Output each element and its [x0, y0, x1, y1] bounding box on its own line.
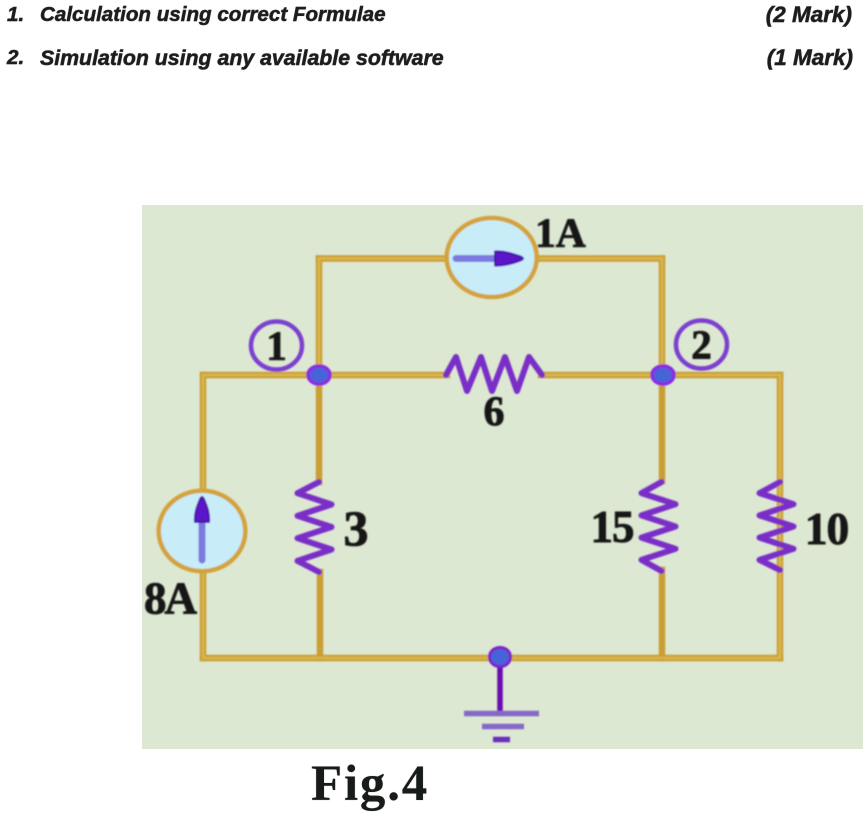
- svg-text:6: 6: [484, 390, 505, 436]
- svg-text:2: 2: [691, 322, 712, 368]
- svg-text:1A: 1A: [535, 210, 586, 256]
- svg-text:3: 3: [344, 500, 369, 556]
- svg-text:1: 1: [266, 323, 287, 369]
- svg-text:15: 15: [591, 502, 634, 552]
- svg-text:10: 10: [805, 503, 849, 554]
- svg-text:8A: 8A: [144, 574, 198, 624]
